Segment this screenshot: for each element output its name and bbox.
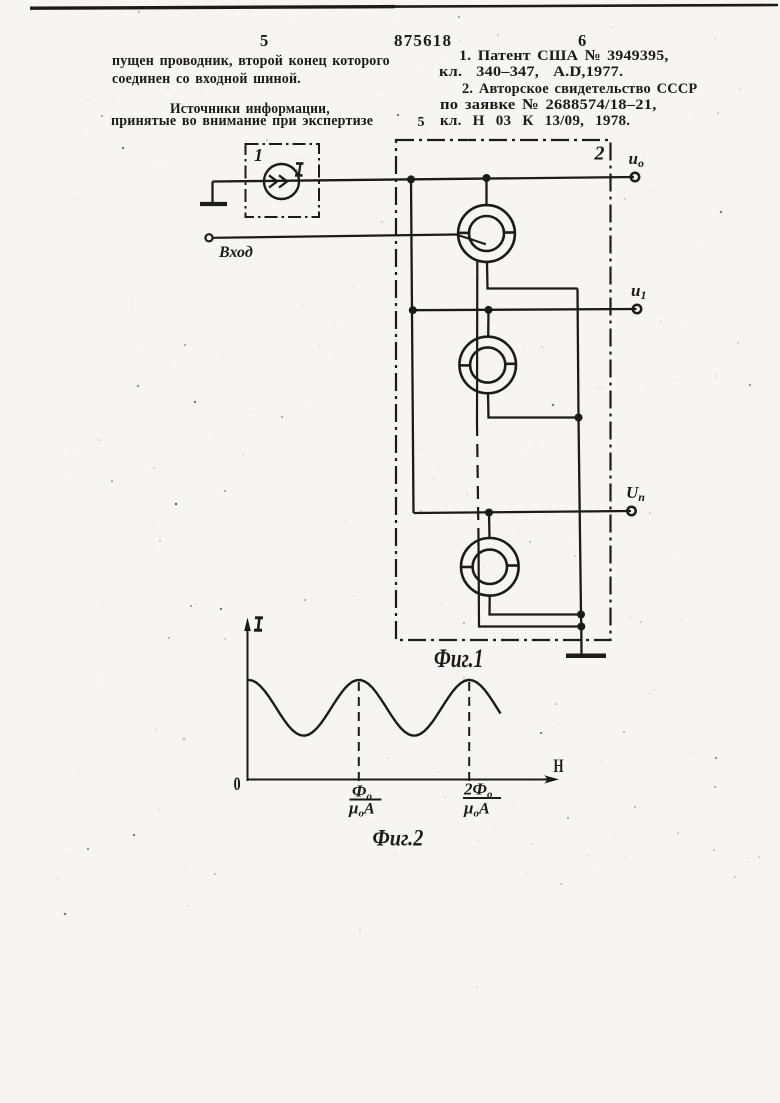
label fraction 2Phi0 over mu0A [463,780,493,820]
wire: toroid 1 bottom winding to right bus [487,262,578,289]
wire: toroid 1 top winding [485,178,487,205]
header column number 5 [260,31,268,51]
left column text [112,53,390,70]
ground (left of current source) [200,182,227,205]
dashed marker at Phi0/mu0A [358,682,360,784]
node: junction dot left bus / u1 bus [409,306,417,314]
wire: toroid 2 bottom winding to right bus [488,393,579,417]
terminal u1 [633,305,641,313]
node: junction dot right bus / input thread return [577,623,585,631]
top rule [30,7,395,9]
svg-text:Фиг.2: Фиг.2 [373,825,424,850]
wire: u1 bus [413,309,637,310]
svg-text:uo: uo [629,149,644,170]
wire: toroid 3 bottom winding to right bus [490,596,582,615]
svg-text:Н: Н [554,756,564,777]
node: junction dot right bus / toroid 3 bottom [577,611,585,619]
node: junction dot un bus / toroid 3 winding [485,509,493,517]
svg-text:Фиг.1: Фиг.1 [434,643,483,672]
ground (bottom of right bus) [566,653,606,658]
svg-text:μоА: μоА [463,799,490,820]
toroid core 1 [458,205,515,262]
current source circle (block 1) [264,164,299,199]
terminal Вход [205,234,212,241]
wire: input thread between toroid 1 and toroid 2 [476,261,478,423]
svg-text:u1: u1 [631,281,646,302]
dashed box 1 (current source block) [246,144,320,217]
node: junction dot u0 bus / toroid 1 winding [483,174,491,182]
wire: input thread dashed section [477,423,479,538]
terminal u0 [631,173,639,181]
svg-text:0: 0 [234,773,241,794]
graph Y axis with arrow [244,618,251,782]
wire: toroid 2 top winding [487,310,490,337]
wire: toroid 3 top winding [488,513,491,539]
header column number 6 [578,31,586,51]
wire: un bus [414,511,632,513]
node: junction dot right bus / toroid 2 bottom [575,414,583,422]
svg-text:Un: Un [626,483,645,504]
node: junction dot u0 bus / left bus [407,175,415,183]
svg-text:1: 1 [254,145,263,165]
wire: right return bus down to ground [578,289,582,654]
label I (current) [295,164,304,176]
label fraction Phi0 over mu0A [348,782,375,820]
dashed box 2 (converter block) [396,140,611,640]
svg-text:Вход: Вход [218,244,253,261]
dashed marker at 2Phi0/mu0A [468,682,470,784]
svg-text:μоА: μоА [348,799,375,820]
node: junction dot u1 bus / toroid 2 winding [485,306,493,314]
toroid core 3 [461,538,519,596]
header patent number 875618 [394,31,452,51]
margin line number 5 [418,115,425,131]
graph X axis with arrow [247,775,560,783]
svg-text:2: 2 [594,143,605,165]
wire: input to toroid 1 [213,235,486,245]
terminal un [627,507,635,515]
label I (graph ordinate) [254,618,263,630]
wire: input thread through toroid 3 to common [479,538,582,627]
curve I(H) [249,680,501,736]
toroid core 2 [459,337,516,394]
current source chevrons [269,175,287,187]
wire: left bus [411,179,414,513]
wire: ground to current source to u0 terminal [213,177,635,182]
right column text [459,48,669,65]
